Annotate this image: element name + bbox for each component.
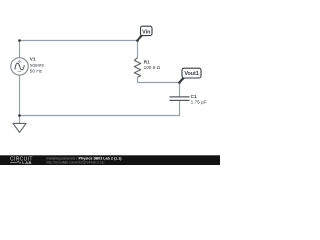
net flag Vin — [137, 26, 152, 41]
resistor R1 — [134, 58, 140, 78]
node Vin junction — [136, 39, 139, 42]
svg-text:http://circuitlab.com/c/b2q7e4: http://circuitlab.com/c/b2q7e4/lab-2-11/ — [46, 160, 104, 164]
svg-text:square: square — [30, 63, 45, 68]
node: ground junction — [18, 114, 21, 117]
svg-text:V1: V1 — [30, 57, 36, 62]
watermark bar — [0, 155, 220, 165]
capacitor C1 — [170, 97, 190, 101]
svg-text:R1: R1 — [144, 59, 150, 64]
svg-text:50 Hz: 50 Hz — [30, 69, 43, 74]
wire bottom rail: V1 bottom to C1 bottom — [20, 75, 180, 115]
net flag Vout1 — [179, 68, 201, 83]
ground — [13, 116, 26, 133]
svg-text:1.75 µF: 1.75 µF — [191, 99, 207, 104]
CircuitLab logo — [10, 157, 33, 166]
voltage source V1 — [11, 58, 28, 75]
wire top rail: V1 top to R1 top — [20, 41, 138, 58]
wire middle: R1 bottom to C1 top (node Vout1) — [138, 77, 180, 97]
svg-text:100.8 Ω: 100.8 Ω — [144, 65, 161, 70]
svg-text:Vout1: Vout1 — [184, 71, 198, 77]
node Vout1 junction — [178, 81, 181, 84]
svg-text:Vin: Vin — [142, 29, 150, 35]
svg-text:LAB: LAB — [22, 160, 32, 165]
node: junction at top-left corner — [18, 39, 21, 42]
